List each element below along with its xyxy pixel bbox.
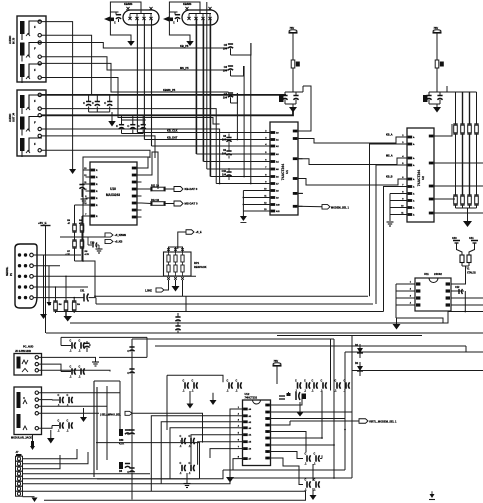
wire +5 bus to flags bbox=[60, 236, 105, 238]
J5 wire 3 bbox=[39, 370, 111, 371]
svg-text:KB/MS: KB/MS bbox=[183, 2, 192, 6]
svg-text:R4: R4 bbox=[59, 303, 63, 306]
svg-text:.1: .1 bbox=[312, 390, 315, 393]
J7 wire 1 bbox=[23, 449, 78, 459]
box loop bottom caps bbox=[96, 443, 200, 479]
connector P1 DB9 serial bbox=[15, 244, 37, 308]
wires from J1 descending bbox=[136, 19, 138, 133]
svg-text:4: 4 bbox=[238, 425, 240, 428]
svg-text:XTAL32: XTAL32 bbox=[467, 272, 476, 275]
svg-text:C: C bbox=[314, 478, 316, 481]
wire loop around caps mid bbox=[167, 375, 223, 382]
svg-text:R: R bbox=[96, 205, 98, 207]
ground arrow U11 area bbox=[393, 324, 401, 330]
arrow below J6 bbox=[47, 438, 55, 444]
svg-text:C: C bbox=[127, 124, 129, 128]
wire J3 pin3 bbox=[41, 43, 228, 49]
J7 wire 7 long loop bbox=[23, 491, 306, 500]
svg-text:.1: .1 bbox=[79, 376, 82, 379]
U1 right-side wires bbox=[303, 86, 312, 131]
svg-text:C: C bbox=[79, 365, 81, 368]
svg-text:1.5KE: 1.5KE bbox=[145, 290, 152, 293]
svg-text:A: A bbox=[413, 178, 415, 181]
svg-text:C: C bbox=[183, 379, 185, 382]
connector J1 (mini-DIN) bbox=[123, 7, 159, 25]
ground arrow below J4 bbox=[69, 169, 76, 174]
svg-text:F: F bbox=[34, 25, 36, 29]
svg-text:KB_P5: KB_P5 bbox=[180, 44, 189, 48]
svg-text:.1: .1 bbox=[189, 472, 192, 475]
svg-text:C: C bbox=[70, 339, 72, 342]
U10 top loop wires bbox=[83, 150, 150, 170]
caps pair CP3 bbox=[52, 394, 73, 407]
svg-text:4: 4 bbox=[410, 302, 412, 305]
wire U10 left riser down bbox=[82, 157, 84, 261]
svg-text:R: R bbox=[96, 170, 98, 172]
svg-text:F: F bbox=[34, 99, 36, 103]
svg-text:A: A bbox=[413, 214, 415, 217]
svg-text:A: A bbox=[413, 157, 415, 160]
flag MS-DAT bbox=[174, 201, 183, 206]
svg-text:C: C bbox=[58, 419, 60, 422]
svg-text:A: A bbox=[413, 193, 415, 196]
svg-text:C: C bbox=[295, 379, 297, 382]
pullup resistor row top right bbox=[453, 124, 478, 134]
svg-text:MS_P5: MS_P5 bbox=[180, 66, 189, 70]
capacitor column C5 bbox=[223, 43, 251, 55]
wire U10 pin to R6 bbox=[82, 215, 86, 217]
svg-text:A9: A9 bbox=[276, 197, 279, 200]
svg-text:R: R bbox=[96, 198, 98, 200]
svg-text:C: C bbox=[236, 379, 238, 382]
wire loop J2 bbox=[169, 2, 200, 14]
svg-text:A1: A1 bbox=[249, 415, 252, 418]
caps pair mid-left B bbox=[227, 379, 242, 392]
svg-text:A7: A7 bbox=[249, 458, 252, 461]
svg-text:F: F bbox=[34, 121, 36, 125]
svg-text:A: A bbox=[413, 164, 415, 167]
decoupling caps PWR1 bbox=[279, 92, 303, 104]
cap C13 vertical bbox=[86, 341, 88, 343]
arrow low bbox=[310, 495, 317, 500]
caps pair CP2 bbox=[61, 365, 85, 378]
svg-text:C12: C12 bbox=[455, 286, 460, 289]
svg-text:R: R bbox=[96, 216, 98, 218]
svg-text:C: C bbox=[58, 394, 60, 397]
J1 signal wires to U1 bbox=[137, 132, 265, 134]
svg-text:104: 104 bbox=[222, 139, 227, 142]
svg-text:A0: A0 bbox=[249, 408, 252, 411]
wire U10 pin to R5 bbox=[75, 204, 86, 206]
svg-text:.1: .1 bbox=[314, 463, 317, 466]
svg-text:.1: .1 bbox=[227, 390, 230, 393]
wire J3 pin6 bbox=[41, 78, 219, 125]
svg-text:C: C bbox=[173, 22, 175, 25]
svg-text:+5_KB: +5_KB bbox=[115, 241, 123, 244]
svg-text:C31: C31 bbox=[80, 290, 85, 293]
caps pair low A bbox=[305, 452, 320, 465]
component R30 bbox=[119, 429, 130, 446]
wire into pin 8 bbox=[216, 183, 265, 185]
ferrite bead PWR2 bbox=[435, 60, 439, 68]
svg-text:R12 10: R12 10 bbox=[151, 199, 160, 202]
mini power mark bottom right bbox=[429, 491, 435, 499]
svg-text:PC_AUD: PC_AUD bbox=[23, 346, 33, 349]
svg-text:104: 104 bbox=[223, 70, 228, 73]
IC U12 16-pin bbox=[238, 392, 275, 466]
wire J3 pin2 bbox=[41, 35, 91, 95]
capacitor C8 on line bbox=[222, 134, 232, 147]
capacitor beside J2 bbox=[174, 12, 176, 15]
IC U11 8-pin eeprom bbox=[410, 272, 456, 311]
svg-text:F: F bbox=[34, 47, 36, 51]
IC U1 74ACT244 buffer bbox=[264, 122, 302, 215]
diode D2 bbox=[355, 362, 363, 376]
vertical bus right of U2 bbox=[440, 92, 477, 195]
svg-text:R3: R3 bbox=[48, 304, 52, 306]
svg-text:.1: .1 bbox=[305, 489, 308, 492]
svg-text:C41: C41 bbox=[469, 237, 474, 240]
wire riser345 to J7w5 bbox=[223, 469, 345, 471]
wire riser352 to J7w6 bbox=[230, 477, 352, 479]
svg-text:KB/MS: KB/MS bbox=[124, 2, 133, 6]
J7 wire 3 bbox=[23, 455, 61, 469]
J7 wire 8 to arrow bbox=[23, 496, 35, 498]
svg-text:A1: A1 bbox=[276, 139, 279, 142]
svg-text:R11 10: R11 10 bbox=[151, 185, 160, 188]
bus wire C bbox=[55, 311, 384, 313]
ground PWR2 bbox=[436, 104, 438, 107]
svg-text:C: C bbox=[312, 379, 314, 382]
svg-text:A: A bbox=[413, 207, 415, 210]
svg-text:C: C bbox=[321, 379, 323, 382]
bottom-left loop verticals bbox=[93, 381, 95, 477]
caps pair bottom-center A bbox=[180, 435, 195, 448]
svg-text:D3: D3 bbox=[119, 470, 123, 473]
capacitor column C6 bbox=[223, 66, 244, 76]
svg-text:.1: .1 bbox=[335, 390, 338, 393]
svg-text:C: C bbox=[335, 379, 337, 382]
svg-text:MODULAR_JACK: MODULAR_JACK bbox=[11, 437, 32, 440]
ground PWR1 bbox=[292, 104, 294, 107]
J7 wire 2 bbox=[23, 452, 89, 464]
caps pair bottom-center B bbox=[180, 462, 195, 475]
svg-text:C: C bbox=[192, 379, 194, 382]
capacitor row C23-C25 bbox=[116, 115, 146, 133]
flag +5 top bbox=[186, 230, 194, 235]
svg-text:A3: A3 bbox=[276, 153, 279, 156]
power tap for J1 bbox=[104, 17, 110, 22]
svg-text:A: A bbox=[413, 143, 415, 146]
svg-text:.1: .1 bbox=[180, 445, 183, 448]
ground J1 bbox=[127, 41, 135, 46]
svg-text:A5: A5 bbox=[276, 168, 279, 171]
caps row above U12 b bbox=[312, 379, 327, 392]
resistors to ground R13-R15 bbox=[48, 276, 80, 317]
svg-text:A4: A4 bbox=[249, 434, 252, 437]
caps pair CP1 bbox=[61, 337, 85, 352]
svg-text:F: F bbox=[34, 142, 36, 146]
IC U10 RS-232 transceiver bbox=[84, 162, 141, 225]
flag VIRTL_MODEM bbox=[359, 419, 368, 424]
svg-text:C: C bbox=[92, 101, 94, 105]
svg-text:C: C bbox=[304, 379, 306, 382]
svg-text:C: C bbox=[180, 435, 182, 438]
svg-text:U1: U1 bbox=[285, 170, 289, 174]
DB9 vertical drains bbox=[43, 255, 45, 314]
earth ground bottom-center bbox=[184, 483, 191, 485]
svg-text:C40: C40 bbox=[452, 237, 457, 240]
svg-text:C: C bbox=[116, 124, 118, 128]
svg-text:R: R bbox=[96, 177, 98, 179]
svg-text:A3: A3 bbox=[249, 427, 252, 430]
connector J5 line jack bbox=[14, 354, 42, 376]
svg-text:C: C bbox=[79, 339, 81, 342]
svg-text:( SELAMPAU_SEL: ( SELAMPAU_SEL bbox=[100, 413, 121, 416]
svg-text:.1: .1 bbox=[79, 350, 82, 353]
U1 lower-left pin wires to ground bus bbox=[243, 191, 266, 217]
svg-text:.1: .1 bbox=[192, 390, 195, 393]
connector J4 (triple phone-jack block) bbox=[17, 90, 46, 157]
svg-text:104: 104 bbox=[223, 97, 228, 100]
svg-text:J7: J7 bbox=[16, 450, 19, 454]
svg-text:C: C bbox=[104, 101, 106, 105]
svg-text:C: C bbox=[127, 434, 129, 436]
riser junction dots bbox=[344, 429, 346, 431]
vertical risers bottom right bbox=[321, 391, 323, 439]
svg-text:R7: R7 bbox=[67, 251, 71, 253]
svg-text:C: C bbox=[189, 462, 191, 465]
U10 output resistor R11 bbox=[152, 187, 164, 191]
crystal load boxes bbox=[460, 255, 476, 278]
svg-text:D2: D2 bbox=[355, 362, 359, 365]
ground arrow U12 bbox=[226, 477, 234, 483]
svg-text:KB_A: KB_A bbox=[386, 134, 393, 137]
bus wire D bbox=[70, 312, 483, 324]
flag KB-DAT bbox=[174, 187, 183, 192]
resistor R8 bbox=[80, 239, 84, 241]
J6 wires bbox=[39, 381, 121, 393]
svg-text:R5: R5 bbox=[67, 220, 71, 222]
caps row above U12 c bbox=[335, 379, 350, 392]
svg-text:A5: A5 bbox=[249, 441, 252, 444]
ferrite bead PWR1 bbox=[291, 60, 295, 68]
svg-text:+5_E: +5_E bbox=[196, 230, 202, 234]
J7 wire 4 bbox=[23, 473, 151, 475]
bus wire F bbox=[132, 338, 334, 340]
svg-text:4.7K: 4.7K bbox=[85, 253, 90, 256]
svg-text:A: A bbox=[413, 136, 415, 139]
U11 right wires bbox=[456, 278, 466, 284]
bus wire B bbox=[96, 303, 373, 305]
ground J2 bbox=[186, 41, 194, 46]
ground arrow for U1 inputs bbox=[240, 216, 247, 221]
wire D1 rail bbox=[345, 351, 483, 353]
svg-text:.1: .1 bbox=[183, 390, 186, 393]
J7 wire 6 bbox=[23, 478, 231, 484]
U2 right wires bbox=[439, 124, 453, 136]
wire J4 pin2 bbox=[41, 109, 216, 184]
crystal caps C40 C41 bbox=[452, 237, 478, 255]
svg-text:.1: .1 bbox=[70, 350, 73, 353]
J5 wire 2 bbox=[39, 364, 62, 371]
wire J4 pin1 thick audio bbox=[41, 94, 286, 96]
svg-text:.1: .1 bbox=[180, 472, 183, 475]
resistor bottoms join bar bbox=[456, 205, 477, 221]
svg-text:U2: U2 bbox=[421, 176, 425, 180]
bus wire A bbox=[95, 295, 368, 297]
IC U2 74ACT244 right bbox=[401, 128, 438, 222]
capacitor C10 on line bbox=[222, 168, 232, 180]
wire J3 pin1 to ground rail bbox=[41, 22, 72, 169]
svg-text:MS-DAT 0: MS-DAT 0 bbox=[185, 202, 198, 206]
wire J4 pin6 bbox=[41, 150, 150, 158]
RP1 lower wires bbox=[175, 280, 177, 286]
svg-text:KBMS_P5: KBMS_P5 bbox=[163, 88, 176, 92]
svg-text:C: C bbox=[305, 452, 307, 455]
svg-text:.1: .1 bbox=[236, 390, 239, 393]
svg-text:A8: A8 bbox=[276, 190, 279, 193]
svg-text:Y1: Y1 bbox=[467, 268, 471, 271]
column wires down to U1 bbox=[250, 43, 252, 184]
stub x186 bbox=[185, 296, 187, 311]
ground arrow under resistors bbox=[63, 316, 71, 322]
connector J6 modular jack bbox=[14, 387, 42, 435]
flag VCC b bbox=[105, 239, 113, 243]
svg-text:24C02: 24C02 bbox=[434, 272, 442, 276]
flag MSDN_KBDN bbox=[322, 205, 330, 210]
caps pair low B bbox=[305, 478, 320, 491]
wire J4 pin3 thick audio bbox=[41, 110, 293, 115]
wire J4 pin4 bbox=[41, 129, 219, 184]
wires above RP1 bbox=[169, 247, 183, 252]
ground earth J5 area bbox=[92, 361, 99, 363]
components on left riser x132 bbox=[127, 339, 134, 500]
svg-text:P1: P1 bbox=[10, 272, 13, 276]
wire C31 to bus bbox=[95, 298, 97, 304]
svg-text:R: R bbox=[96, 191, 98, 193]
svg-text:3: 3 bbox=[410, 296, 412, 298]
svg-text:OUT J4: OUT J4 bbox=[12, 112, 16, 122]
wire D2 rail bbox=[352, 370, 483, 372]
J7 wire 5 bbox=[23, 470, 224, 479]
svg-text:MAX3243: MAX3243 bbox=[106, 193, 120, 197]
svg-text:47: 47 bbox=[68, 222, 71, 225]
svg-text:.1: .1 bbox=[58, 430, 61, 433]
svg-text:+5_KBMS: +5_KBMS bbox=[115, 234, 127, 237]
stacked caps on drain x178 bbox=[175, 313, 180, 333]
svg-text:C: C bbox=[127, 351, 129, 353]
capacitor row C20-C22 bbox=[83, 95, 112, 112]
svg-text:C: C bbox=[180, 462, 182, 465]
svg-text:C: C bbox=[67, 394, 69, 397]
resistor bottoms rail bbox=[75, 261, 96, 296]
svg-text:.1: .1 bbox=[314, 489, 317, 492]
svg-text:104: 104 bbox=[222, 174, 227, 177]
svg-text:C: C bbox=[89, 345, 91, 347]
component D3 bbox=[119, 462, 130, 473]
svg-text:A6: A6 bbox=[249, 448, 252, 451]
svg-text:IN J3: IN J3 bbox=[12, 37, 16, 44]
svg-text:104: 104 bbox=[222, 153, 227, 156]
svg-text:C: C bbox=[70, 365, 72, 368]
svg-text:AUDIO: AUDIO bbox=[8, 114, 12, 122]
svg-text:VIRTL_MODEM_SEL 1: VIRTL_MODEM_SEL 1 bbox=[369, 420, 397, 424]
svg-text:MS_A: MS_A bbox=[386, 155, 393, 158]
svg-text:C: C bbox=[67, 419, 69, 422]
ground arrow below U2 bus bbox=[463, 221, 472, 227]
svg-text:AUDIO: AUDIO bbox=[8, 36, 12, 44]
svg-text:R9: R9 bbox=[77, 304, 81, 306]
svg-text:U11: U11 bbox=[424, 272, 429, 276]
svg-text:.1: .1 bbox=[70, 376, 73, 379]
J5 wire 1b to box bbox=[96, 337, 148, 357]
svg-text:KB_B: KB_B bbox=[386, 176, 393, 179]
svg-text:R: R bbox=[96, 184, 98, 186]
svg-text:U10: U10 bbox=[110, 187, 116, 191]
earth ground C30 bbox=[98, 245, 100, 249]
capacitor C12 at U11 bbox=[455, 286, 465, 312]
svg-text:C: C bbox=[314, 452, 316, 455]
connector J3 (triple phone-jack block) bbox=[17, 16, 46, 83]
svg-text:C: C bbox=[138, 124, 140, 128]
power tap for J2 bbox=[163, 17, 169, 22]
svg-text:A6: A6 bbox=[276, 176, 279, 179]
capacitor beside J1 bbox=[115, 12, 117, 15]
U12 right staircase wires bbox=[275, 399, 302, 405]
U11 left wires bbox=[396, 284, 410, 318]
svg-text:RP1: RP1 bbox=[194, 261, 200, 265]
svg-text:F: F bbox=[34, 68, 36, 72]
svg-text:A: A bbox=[413, 186, 415, 189]
wire J3 pin5 bbox=[41, 63, 228, 92]
svg-text:+5V_E: +5V_E bbox=[38, 221, 47, 225]
svg-text:C: C bbox=[189, 435, 191, 438]
capacitor column C7 bbox=[223, 93, 238, 103]
svg-text:C: C bbox=[83, 101, 85, 105]
svg-text:74HCT132: 74HCT132 bbox=[245, 396, 258, 400]
jumper JP1 bbox=[31, 441, 34, 446]
wires from J2 descending thick bbox=[195, 19, 197, 155]
svg-text:.1: .1 bbox=[305, 463, 308, 466]
caps pair mid-left A bbox=[183, 379, 198, 392]
branch wire PWR2 bbox=[446, 86, 448, 92]
DB9 pin wires bbox=[33, 254, 81, 256]
svg-text:KB_CLK: KB_CLK bbox=[167, 129, 178, 133]
svg-text:.1: .1 bbox=[304, 390, 307, 393]
ground for cap row A bbox=[111, 112, 113, 121]
svg-text:A0: A0 bbox=[276, 132, 279, 135]
svg-text:KB-DAT 0: KB-DAT 0 bbox=[185, 187, 198, 191]
arrow CP area bbox=[80, 417, 87, 422]
J5 wire 1 bbox=[39, 357, 96, 362]
svg-text:RESPACK: RESPACK bbox=[194, 265, 207, 269]
resistor pack RP1 bbox=[164, 248, 192, 280]
svg-text:A2: A2 bbox=[249, 421, 252, 424]
svg-text:A: A bbox=[413, 200, 415, 203]
capacitor C9 on line bbox=[222, 146, 232, 159]
box loop J5 top bbox=[61, 336, 147, 338]
svg-text:U12: U12 bbox=[245, 392, 250, 396]
wire SEL to box bbox=[132, 413, 203, 442]
ground arrow crystal bbox=[296, 412, 304, 417]
svg-text:C: C bbox=[305, 478, 307, 481]
svg-text:4: 4 bbox=[402, 155, 404, 158]
caps row above U12 a bbox=[295, 379, 310, 392]
connector J7 8-pin header bbox=[16, 450, 23, 496]
svg-text:104: 104 bbox=[223, 48, 228, 51]
U12 left wires bbox=[230, 409, 238, 477]
